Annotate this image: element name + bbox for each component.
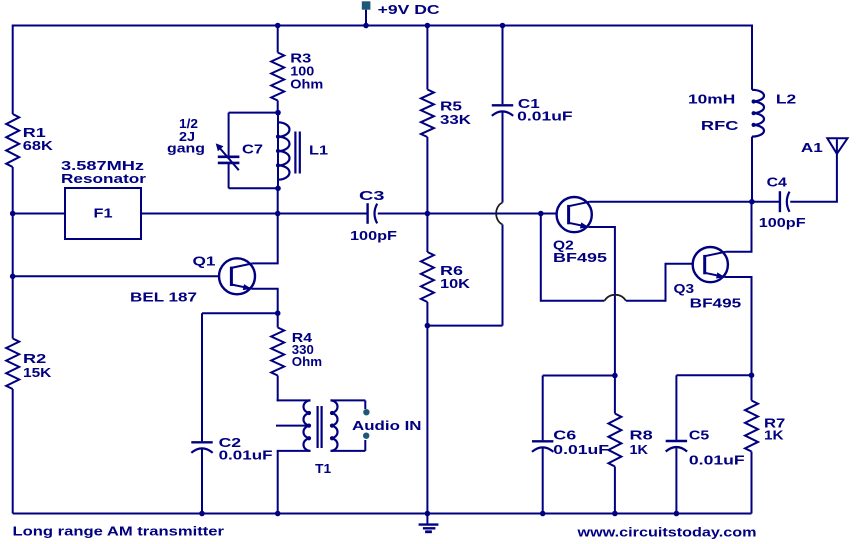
- svg-text:15K: 15K: [23, 365, 52, 380]
- node: collector/L1 junction on wire A: [275, 211, 281, 217]
- wire: top supply rail: [13, 25, 752, 27]
- resistor R5 33K: [426, 26, 428, 90]
- node: +9V on top rail: [363, 23, 369, 29]
- node: C6 bottom on ground rail: [540, 511, 546, 517]
- svg-text:F1: F1: [94, 206, 113, 221]
- svg-text:C3: C3: [359, 188, 385, 203]
- svg-text:1K: 1K: [630, 442, 649, 457]
- node: Q1 base wire on left rail: [10, 274, 16, 280]
- svg-text:BF495: BF495: [690, 296, 742, 311]
- wire: C5 to R7 node: [676, 374, 751, 376]
- svg-text:0.01uF: 0.01uF: [517, 108, 572, 123]
- svg-text:Long range AM transmitter: Long range AM transmitter: [13, 524, 225, 539]
- capacitor C3 100pF: [366, 203, 368, 224]
- svg-text:C4: C4: [767, 174, 788, 189]
- inductor L1: [277, 113, 279, 189]
- capacitor C4 100pF: [779, 191, 781, 212]
- wire: Q2/Q3 base tie line: [541, 214, 605, 301]
- svg-text:Ohm: Ohm: [290, 76, 323, 91]
- audio input terminal (top): [363, 409, 369, 415]
- capacitor C6 0.01uF: [542, 376, 544, 441]
- svg-text:C7: C7: [242, 142, 263, 157]
- resistor R4 330 Ohm: [277, 313, 279, 327]
- node: C5 bottom on ground rail: [674, 511, 680, 517]
- resistor R3: [277, 26, 279, 53]
- wire: bottom ground rail: [13, 513, 752, 515]
- svg-text:www.circuitstoday.com: www.circuitstoday.com: [576, 525, 756, 540]
- svg-text:68K: 68K: [23, 138, 54, 153]
- transformer T1 primary winding: [277, 399, 279, 401]
- svg-text:0.01uF: 0.01uF: [689, 453, 745, 468]
- svg-text:A1: A1: [801, 140, 823, 155]
- svg-text:R8: R8: [630, 428, 653, 443]
- svg-text:Resonator: Resonator: [61, 171, 146, 186]
- transformer T1 core: [317, 406, 319, 448]
- resistor R7 1K: [751, 375, 753, 400]
- node: ground junction on rail: [425, 511, 431, 517]
- node: C2 bottom on ground rail: [199, 511, 205, 517]
- wire: Q2 emitter down to R8 node: [589, 227, 615, 376]
- svg-text:0.01uF: 0.01uF: [553, 442, 609, 457]
- audio input terminal (bottom): [363, 433, 369, 439]
- capacitor C2 0.01uF: [201, 313, 203, 441]
- svg-text:33K: 33K: [440, 112, 472, 127]
- svg-text:100pF: 100pF: [350, 228, 397, 243]
- node: R5 top on rail: [425, 23, 431, 29]
- wire: left rail to F1: [13, 213, 65, 215]
- wire: C6 to R8 node: [543, 375, 615, 377]
- resistor R2: [6, 339, 19, 390]
- svg-text:100pF: 100pF: [759, 215, 806, 230]
- wire crossover hop: base tie over Q2 emitter: [605, 295, 626, 301]
- resistor R6 10K: [426, 214, 428, 253]
- node: wire A on left rail: [10, 211, 16, 217]
- node: T1 primary bottom on ground rail: [275, 511, 281, 517]
- capacitor C1 0.01uF: [502, 26, 504, 105]
- wire: L1 node down to oscillator line: [277, 188, 279, 213]
- svg-text:C6: C6: [553, 428, 576, 443]
- transformer T1 secondary winding: [331, 400, 338, 451]
- svg-text:C5: C5: [689, 427, 709, 442]
- node: R5/R6 junction on wire A: [425, 211, 431, 217]
- svg-text:BF495: BF495: [553, 250, 607, 265]
- svg-text:+9V DC: +9V DC: [378, 2, 441, 17]
- wire: base tie continues to Q3 base: [626, 264, 693, 301]
- node: C1 top on rail: [500, 23, 506, 29]
- svg-text:0.01uF: 0.01uF: [219, 448, 273, 463]
- ground symbol: [426, 514, 428, 525]
- svg-text:Q1: Q1: [193, 254, 216, 269]
- +9V DC supply terminal: [362, 1, 371, 9]
- svg-text:1K: 1K: [764, 427, 784, 442]
- wire: left rail middle segment: [12, 167, 14, 339]
- svg-text:10mH: 10mH: [688, 92, 735, 107]
- transistor Q1 BEL 187: [219, 258, 255, 294]
- node: R8 bottom on ground rail: [612, 511, 618, 517]
- node: Q2 emitter / R8 / C6: [612, 373, 618, 379]
- resistor R8 1K: [614, 376, 616, 414]
- wire: Q3 collector up to L2/C4 node: [726, 202, 752, 252]
- node: Q3 emitter / R7 / C5: [749, 372, 755, 378]
- svg-text:gang: gang: [167, 140, 205, 155]
- resonator F1 (3.587MHz): [65, 188, 141, 239]
- svg-text:R2: R2: [23, 351, 46, 366]
- svg-text:BEL 187: BEL 187: [130, 290, 197, 305]
- node: Q2 base wire junction: [538, 211, 544, 217]
- svg-text:T1: T1: [315, 461, 331, 476]
- node: C7/L1 top: [275, 110, 281, 116]
- svg-text:RFC: RFC: [701, 118, 739, 133]
- wire: Q1 base wire from left rail: [13, 275, 220, 277]
- node: Q1 emitter / R4 / C2 junction: [275, 310, 281, 316]
- wire: Q1 collector to oscillator node: [253, 214, 278, 264]
- transistor Q3 BF495: [693, 247, 728, 282]
- capacitor C7 (variable, 1/2 2J gang): [229, 112, 278, 114]
- wire: T1 primary centre tap stub: [276, 425, 308, 427]
- wire: F1 to C3: [141, 213, 367, 215]
- node: L2 / C4 / collectors junction: [749, 199, 755, 205]
- svg-text:L2: L2: [776, 92, 796, 107]
- resistor R1: [6, 114, 19, 167]
- transistor Q2 BF495: [557, 197, 592, 232]
- antenna A1: [827, 138, 847, 154]
- svg-text:Audio IN: Audio IN: [352, 418, 422, 433]
- node: C7/L1 bottom: [275, 186, 281, 192]
- node: R6 bottom / C1 return: [425, 323, 431, 329]
- wire: C4 to antenna: [790, 139, 837, 202]
- wire: left rail top segment: [12, 25, 14, 115]
- svg-text:10K: 10K: [440, 276, 471, 291]
- svg-text:Q3: Q3: [674, 281, 695, 296]
- wire crossover hop: C1 branch over oscillator wire: [496, 203, 502, 225]
- wire: C3 to Q2 base: [378, 213, 557, 215]
- wire: Q1 emitter down: [252, 289, 278, 314]
- svg-text:Ohm: Ohm: [292, 354, 322, 369]
- wire: Q2 collector line to L2/C4 node: [590, 201, 779, 203]
- wire: R6 bottom to C1 bottom: [427, 325, 502, 327]
- wire: left rail bottom segment: [12, 389, 14, 514]
- wire: Q3 emitter down to R7 node: [725, 277, 752, 375]
- svg-text:L1: L1: [309, 143, 328, 158]
- capacitor C5 0.01uF: [675, 375, 677, 440]
- wire: emitter node to C2: [202, 312, 278, 314]
- inductor L2 10mH RFC: [751, 25, 753, 90]
- node: R3 top on rail: [275, 23, 281, 29]
